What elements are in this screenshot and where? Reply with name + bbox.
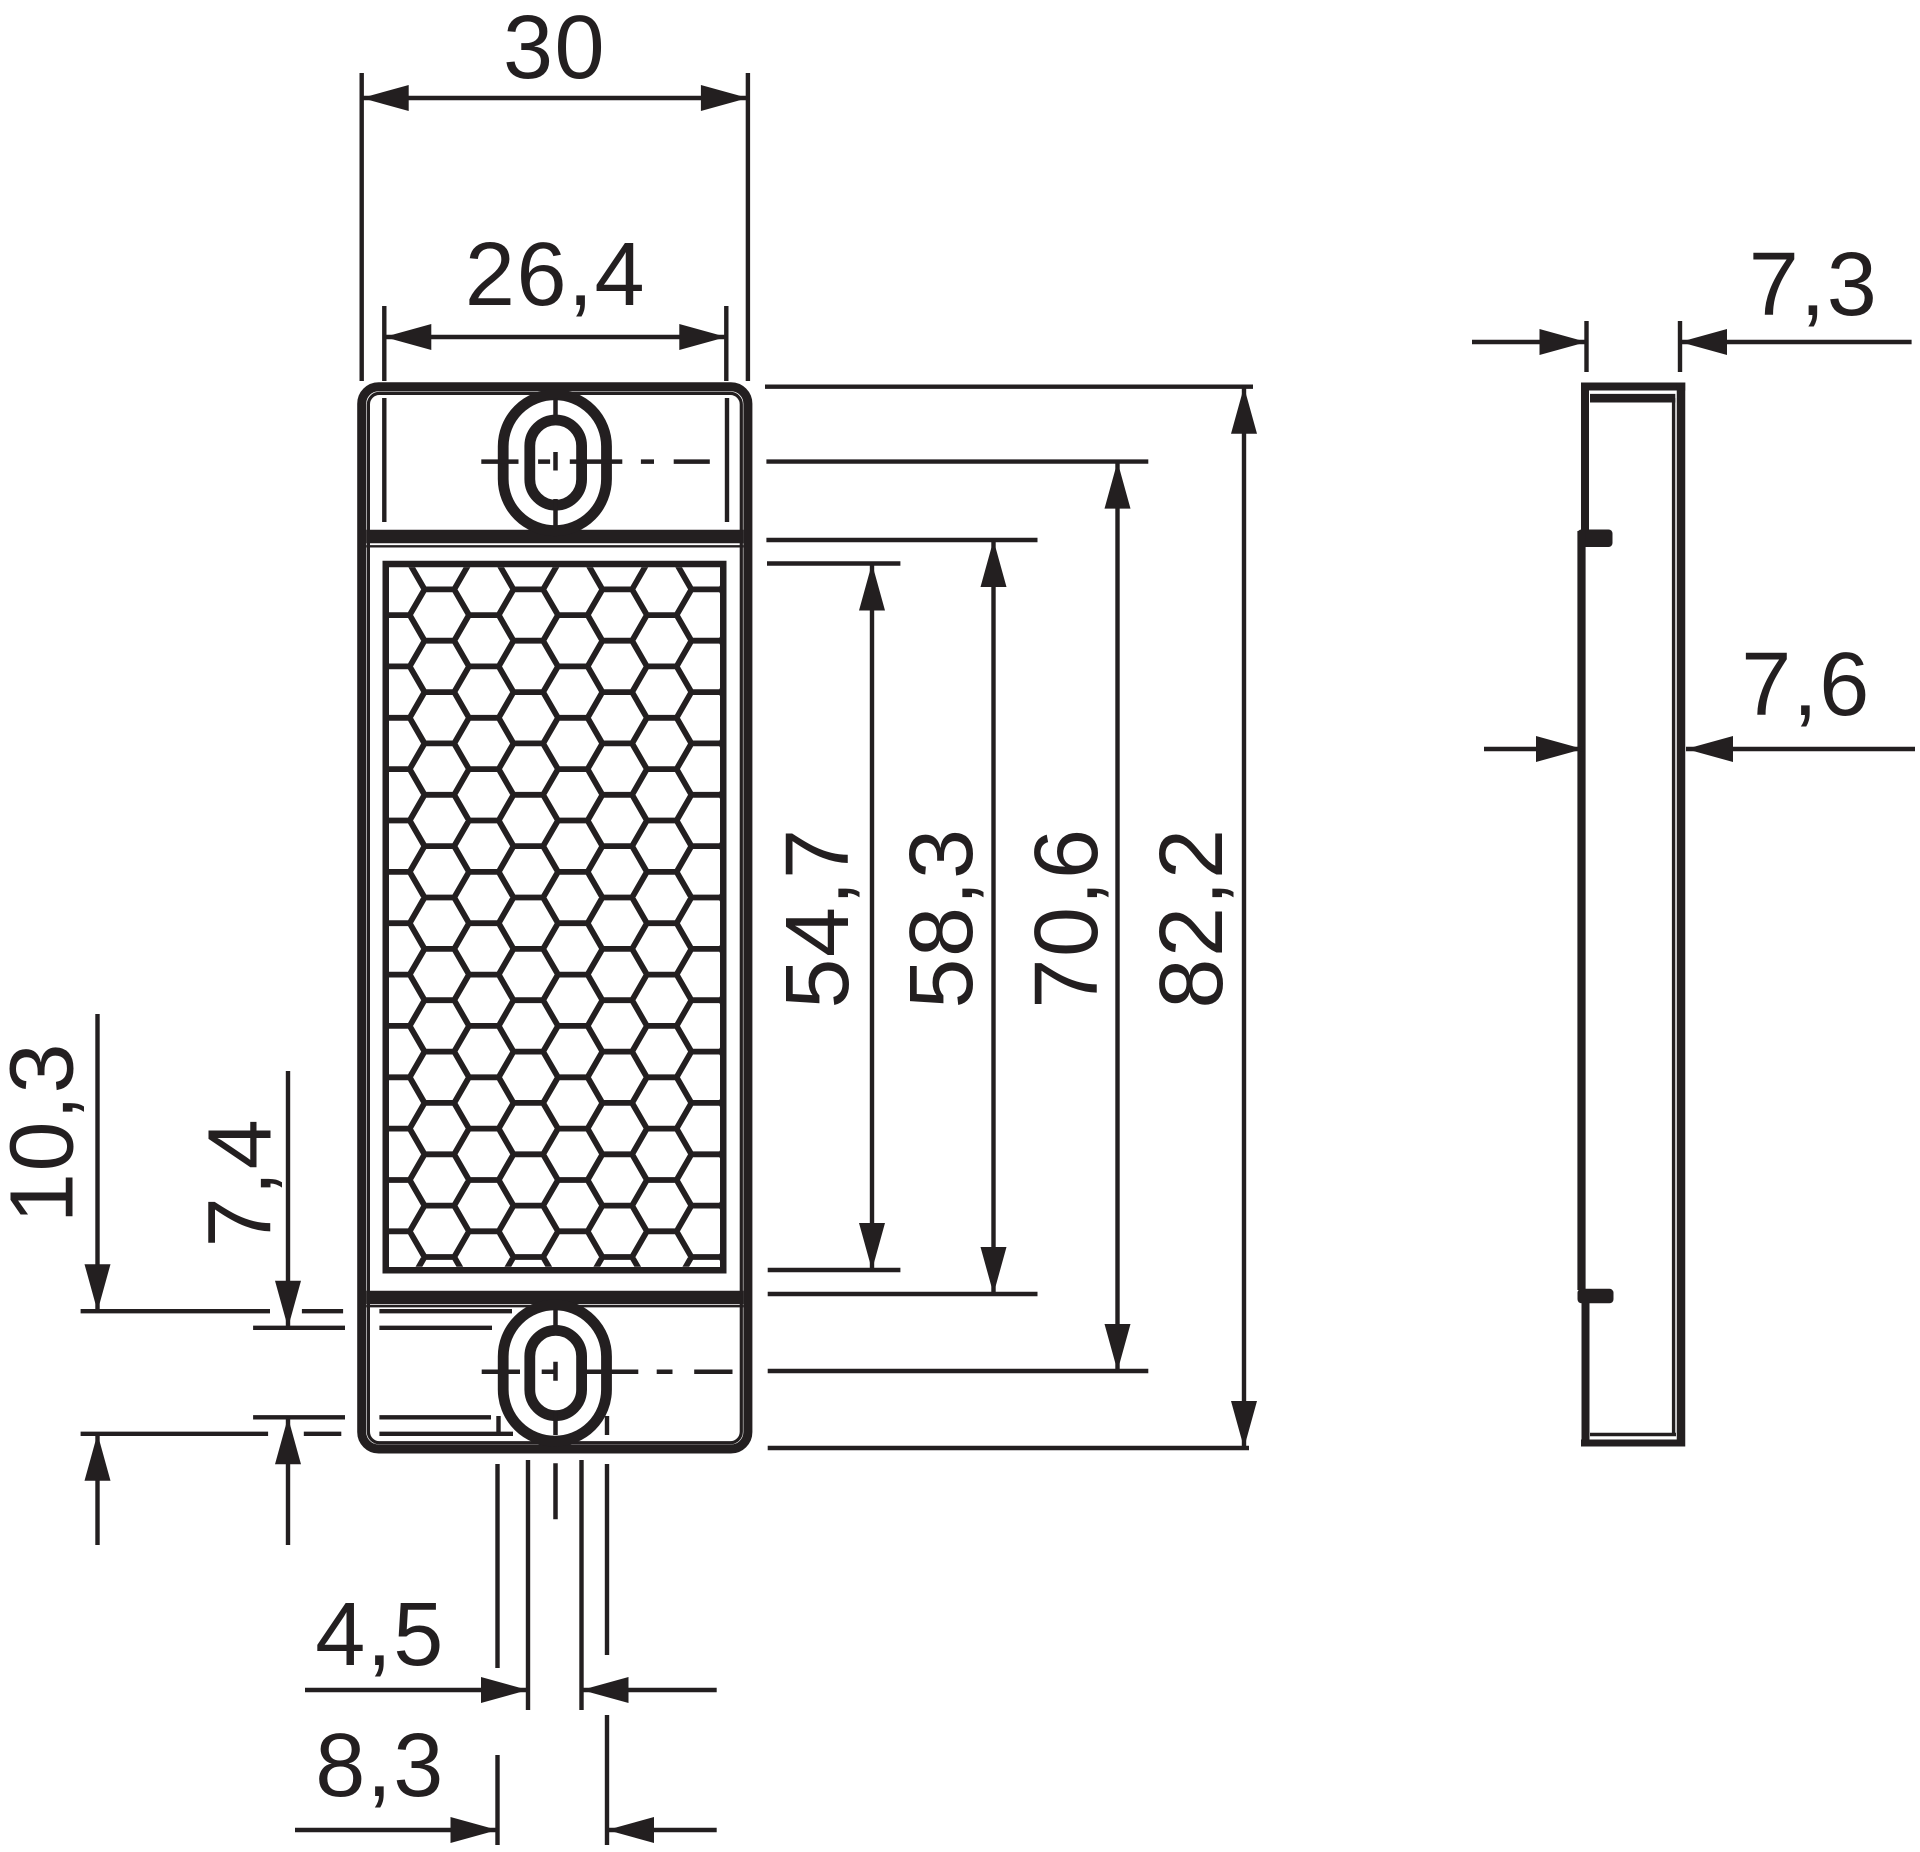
dimension 30 line [362,96,748,100]
svg-text:58,3: 58,3 [892,827,992,1008]
bottom divider thin [366,1305,743,1307]
8,3 extension line v4 [605,1464,609,1845]
svg-text:8,3: 8,3 [315,1716,445,1816]
top cap right wall line [725,398,729,522]
bottom oval hole inner ring [530,1330,582,1415]
svg-text:10,3: 10,3 [0,1042,93,1223]
bottom divider thick [366,1291,743,1305]
side view bottom inner thin line [1590,1433,1676,1436]
top oval crosshair vertical [553,399,558,527]
dimension 70,6 line [1115,462,1119,1371]
side view top hook [1578,530,1613,548]
side view right inner line [1672,398,1675,1434]
dimension 58,3 arrows [981,540,1007,1294]
dimension 7,4 arrow up [275,1417,301,1464]
top oval crosshair horizontal (dash-dot) [481,459,710,464]
dimension 10,3 arrow up [85,1434,111,1481]
svg-text:82,2: 82,2 [1142,827,1242,1008]
svg-text:30: 30 [503,0,606,98]
dimension 4,5 line [305,1688,717,1692]
4,5 extension line v3 [579,1460,583,1710]
top divider thick [366,530,743,544]
bottom oval crosshair vertical [553,1309,558,1519]
reference line C (7,4 bottom) [253,1415,491,1419]
dimension 8,3 line [295,1828,717,1832]
dimension 54,7 line [870,564,874,1271]
dimension 10,3 line upper [95,1014,99,1311]
side view right edge [1677,383,1686,1447]
top divider thin [366,545,743,547]
side view left edge middle segment [1577,531,1585,1290]
side view top inner band [1590,394,1675,403]
dimension 10,3 line lower [95,1434,99,1545]
dimension 26,4 extension lines [384,306,726,381]
dimension 7,6 line [1484,747,1915,751]
dimension 7,6 arrows [1536,736,1733,762]
svg-text:7,6: 7,6 [1741,635,1871,735]
8,3 short reference verticals inside bottom cap [499,1416,608,1435]
top cap left wall line [382,398,386,522]
dimension 82,2 arrows [1231,387,1257,1448]
svg-text:26,4: 26,4 [465,225,646,325]
dimension 26,4 line [384,335,726,339]
side view bottom edge [1581,1440,1685,1447]
dimension 26,4 arrows [384,324,726,350]
front view outer body [362,387,748,1449]
dimension 70,6 extension lines [766,462,1148,1371]
dimension 82,2 extension lines [765,387,1253,1448]
dimension 10,3 arrow down [85,1264,111,1311]
dimension 4,5 arrows [481,1677,629,1703]
4,5 extension line v2 [526,1460,530,1710]
side view top edge [1581,383,1685,391]
bottom oval hole outer ring [503,1305,606,1441]
dimension 30 extension lines [362,73,748,381]
side view left edge top segment [1581,383,1589,532]
dimension 7,3 extension ticks [1587,321,1681,372]
side view bottom hook [1578,1289,1614,1304]
dimension 7,4 line upper [286,1071,290,1328]
dimension 58,3 extension lines [766,540,1037,1294]
dimension 54,7 extension lines [767,564,900,1271]
side view left edge bottom segment [1582,1303,1590,1447]
reference line A (10,3 top) [81,1309,512,1313]
dimension 70,6 arrows [1105,462,1131,1371]
svg-text:7,4: 7,4 [191,1118,291,1248]
dimension 7,4 arrow down [275,1281,301,1328]
dimension 58,3 line [991,540,995,1294]
8,3 extension line v1 [495,1464,499,1845]
dimension 82,2 line [1242,387,1246,1448]
svg-text:4,5: 4,5 [315,1585,445,1685]
front view inner outline [368,393,741,1442]
top oval hole inner ring [530,420,582,505]
honeycomb panel border [386,564,724,1270]
svg-text:54,7: 54,7 [768,827,868,1008]
reference line D (10,3 bottom) [81,1432,513,1436]
dimension 30 arrows [362,85,748,111]
dimension 7,3 arrows [1540,329,1728,355]
dimension 54,7 arrows [859,564,885,1271]
dimension 7,4 line lower [286,1417,290,1545]
svg-text:7,3: 7,3 [1749,235,1879,335]
bottom oval crosshair horizontal (dash-dot) [482,1369,733,1374]
dimension 8,3 arrows [451,1817,655,1843]
svg-text:70,6: 70,6 [1017,827,1117,1008]
dimension 7,3 line [1472,340,1912,344]
top oval hole outer ring [503,395,606,531]
reference line B (7,4 top) [253,1326,492,1330]
